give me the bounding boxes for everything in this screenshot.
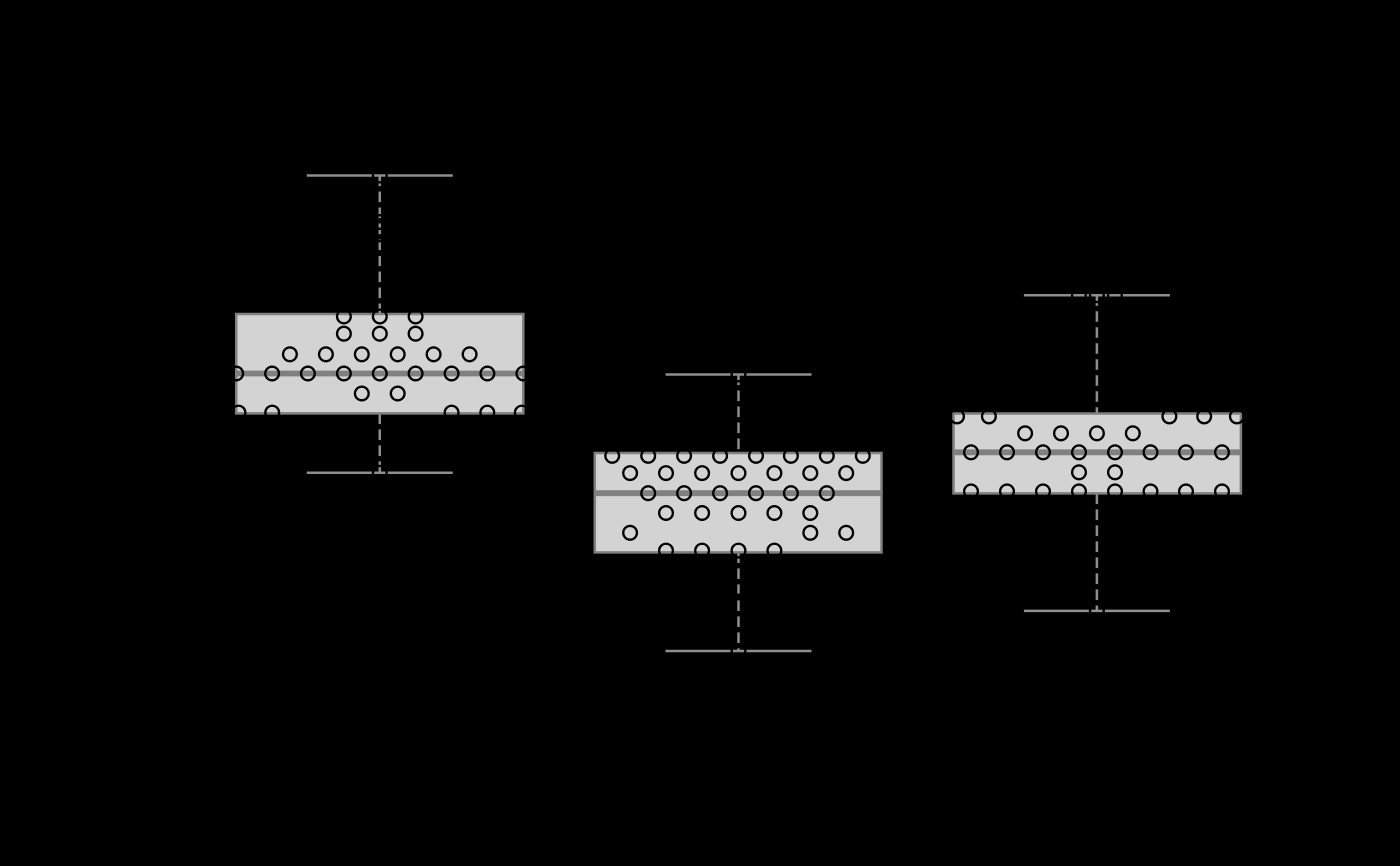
group 3 upper whisker (dashed) <box>1096 295 1099 413</box>
group 1 lower cap <box>307 472 453 475</box>
group 3 lower whisker (dashed) <box>1096 493 1099 611</box>
group 3 data points (open circles) <box>950 288 1244 617</box>
group 3 median line <box>954 449 1241 455</box>
group 2 lower cap <box>666 650 812 653</box>
group 1 upper whisker (dashed) <box>379 176 382 315</box>
group 2 box (IQR) <box>595 453 882 552</box>
group 3 upper cap <box>1024 294 1170 297</box>
group 1 upper cap <box>307 174 453 177</box>
group 3 box (IQR) <box>954 414 1241 494</box>
group 1 lower whisker (dashed) <box>379 413 382 472</box>
group 1 box (IQR) <box>236 314 523 413</box>
group 2 data points (open circles) <box>605 368 869 658</box>
group 2 lower whisker (dashed) <box>737 552 740 651</box>
group 2 upper cap <box>666 373 812 376</box>
group 3 lower cap <box>1024 610 1170 613</box>
group 1 median line <box>236 371 523 377</box>
group 2 median line <box>595 490 882 496</box>
group 2 upper whisker (dashed) <box>737 375 740 454</box>
group 1 data points (open circles) <box>229 169 530 480</box>
